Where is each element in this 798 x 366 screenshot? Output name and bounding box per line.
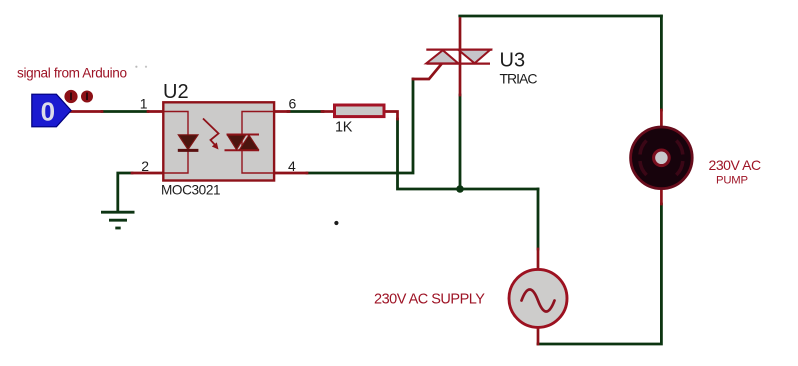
svg-text:2: 2 xyxy=(141,158,149,174)
svg-text:U3: U3 xyxy=(500,50,526,72)
svg-text:U2: U2 xyxy=(163,81,189,103)
svg-text:TRIAC: TRIAC xyxy=(500,71,538,87)
svg-text:PUMP: PUMP xyxy=(716,175,748,187)
svg-text:MOC3021: MOC3021 xyxy=(161,183,220,198)
svg-text:230V AC: 230V AC xyxy=(709,157,761,173)
svg-text:4: 4 xyxy=(288,158,296,174)
svg-text:1K: 1K xyxy=(335,120,353,136)
svg-text:6: 6 xyxy=(289,96,297,112)
svg-text:1: 1 xyxy=(140,96,148,112)
svg-text:230V AC SUPPLY: 230V AC SUPPLY xyxy=(374,292,485,308)
svg-text:signal from Arduino: signal from Arduino xyxy=(17,66,127,81)
svg-text:0: 0 xyxy=(41,96,55,126)
